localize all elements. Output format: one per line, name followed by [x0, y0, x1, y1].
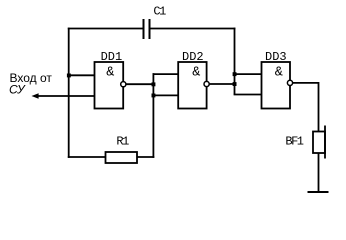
- wire: top horizontal right segment from C1 to right vertical: [150, 28, 236, 30]
- svg-text:&: &: [192, 66, 200, 81]
- wire: right vertical from top wire down to DD3 lower input corner: [234, 28, 236, 95]
- node D: junction right vertical / DD3 upper input: [233, 72, 237, 76]
- wire: left vertical bus (feedback from C1/R1 to DD1 upper input): [68, 28, 70, 158]
- op-amp/gate DD1 box: [95, 62, 124, 109]
- wire: top horizontal left segment from left vertical to C1: [68, 28, 144, 30]
- svg-text:R1: R1: [116, 135, 129, 149]
- wire: input line from CY arrow to DD1 lower input: [38, 95, 95, 97]
- node C: junction middle vertical / DD2 lower input: [152, 94, 156, 98]
- resistor R1: [106, 152, 138, 163]
- wire: DD3 upper input branch: [234, 73, 262, 75]
- wire: middle vertical (node between DD1 out and DD2 inputs, down to R1): [152, 73, 154, 158]
- pin bubble: DD3 inverted output: [287, 80, 292, 85]
- svg-text:DD3: DD3: [265, 50, 287, 64]
- svg-text:DD1: DD1: [101, 50, 123, 64]
- svg-text:&: &: [106, 66, 114, 81]
- gate DD3 box: [262, 62, 291, 109]
- gate DD2 box: [178, 62, 206, 109]
- wire: DD1 upper input from left bus: [69, 74, 95, 76]
- node B: junction DD1 output / middle vertical: [152, 82, 156, 86]
- wire: vertical down from DD3 output to BF1: [318, 82, 320, 132]
- wire: DD2 lower input branch: [153, 94, 178, 96]
- arrow to control unit (left pointing arrowhead): [32, 93, 39, 99]
- svg-text:BF1: BF1: [285, 135, 303, 149]
- pin bubble: DD2 inverted output: [204, 81, 209, 86]
- svg-text:СУ: СУ: [9, 83, 26, 97]
- node A: junction left bus / DD1 upper input: [67, 74, 71, 78]
- svg-text:C1: C1: [153, 5, 166, 19]
- pin bubble: DD1 inverted output: [121, 82, 126, 87]
- node E: junction DD2 output / right vertical: [233, 82, 237, 86]
- wire: DD1 output to feedback node: [126, 83, 154, 85]
- svg-text:DD2: DD2: [182, 50, 204, 64]
- wire: DD2 upper input branch: [153, 73, 179, 75]
- capacitor C1 plates: [144, 19, 150, 39]
- wire: DD2 output to right vertical node: [209, 83, 235, 85]
- wire: DD3 output horizontal to BF1 branch: [293, 82, 319, 84]
- wire: bottom feedback horizontal left of R1: [68, 156, 106, 158]
- ground: [308, 191, 329, 193]
- wire: vertical from BF1 to ground: [318, 153, 320, 192]
- svg-text:&: &: [275, 66, 283, 81]
- sounder BF1: [313, 126, 325, 159]
- wire: DD3 lower input branch: [234, 94, 262, 96]
- wire: bottom feedback horizontal right of R1: [137, 156, 154, 158]
